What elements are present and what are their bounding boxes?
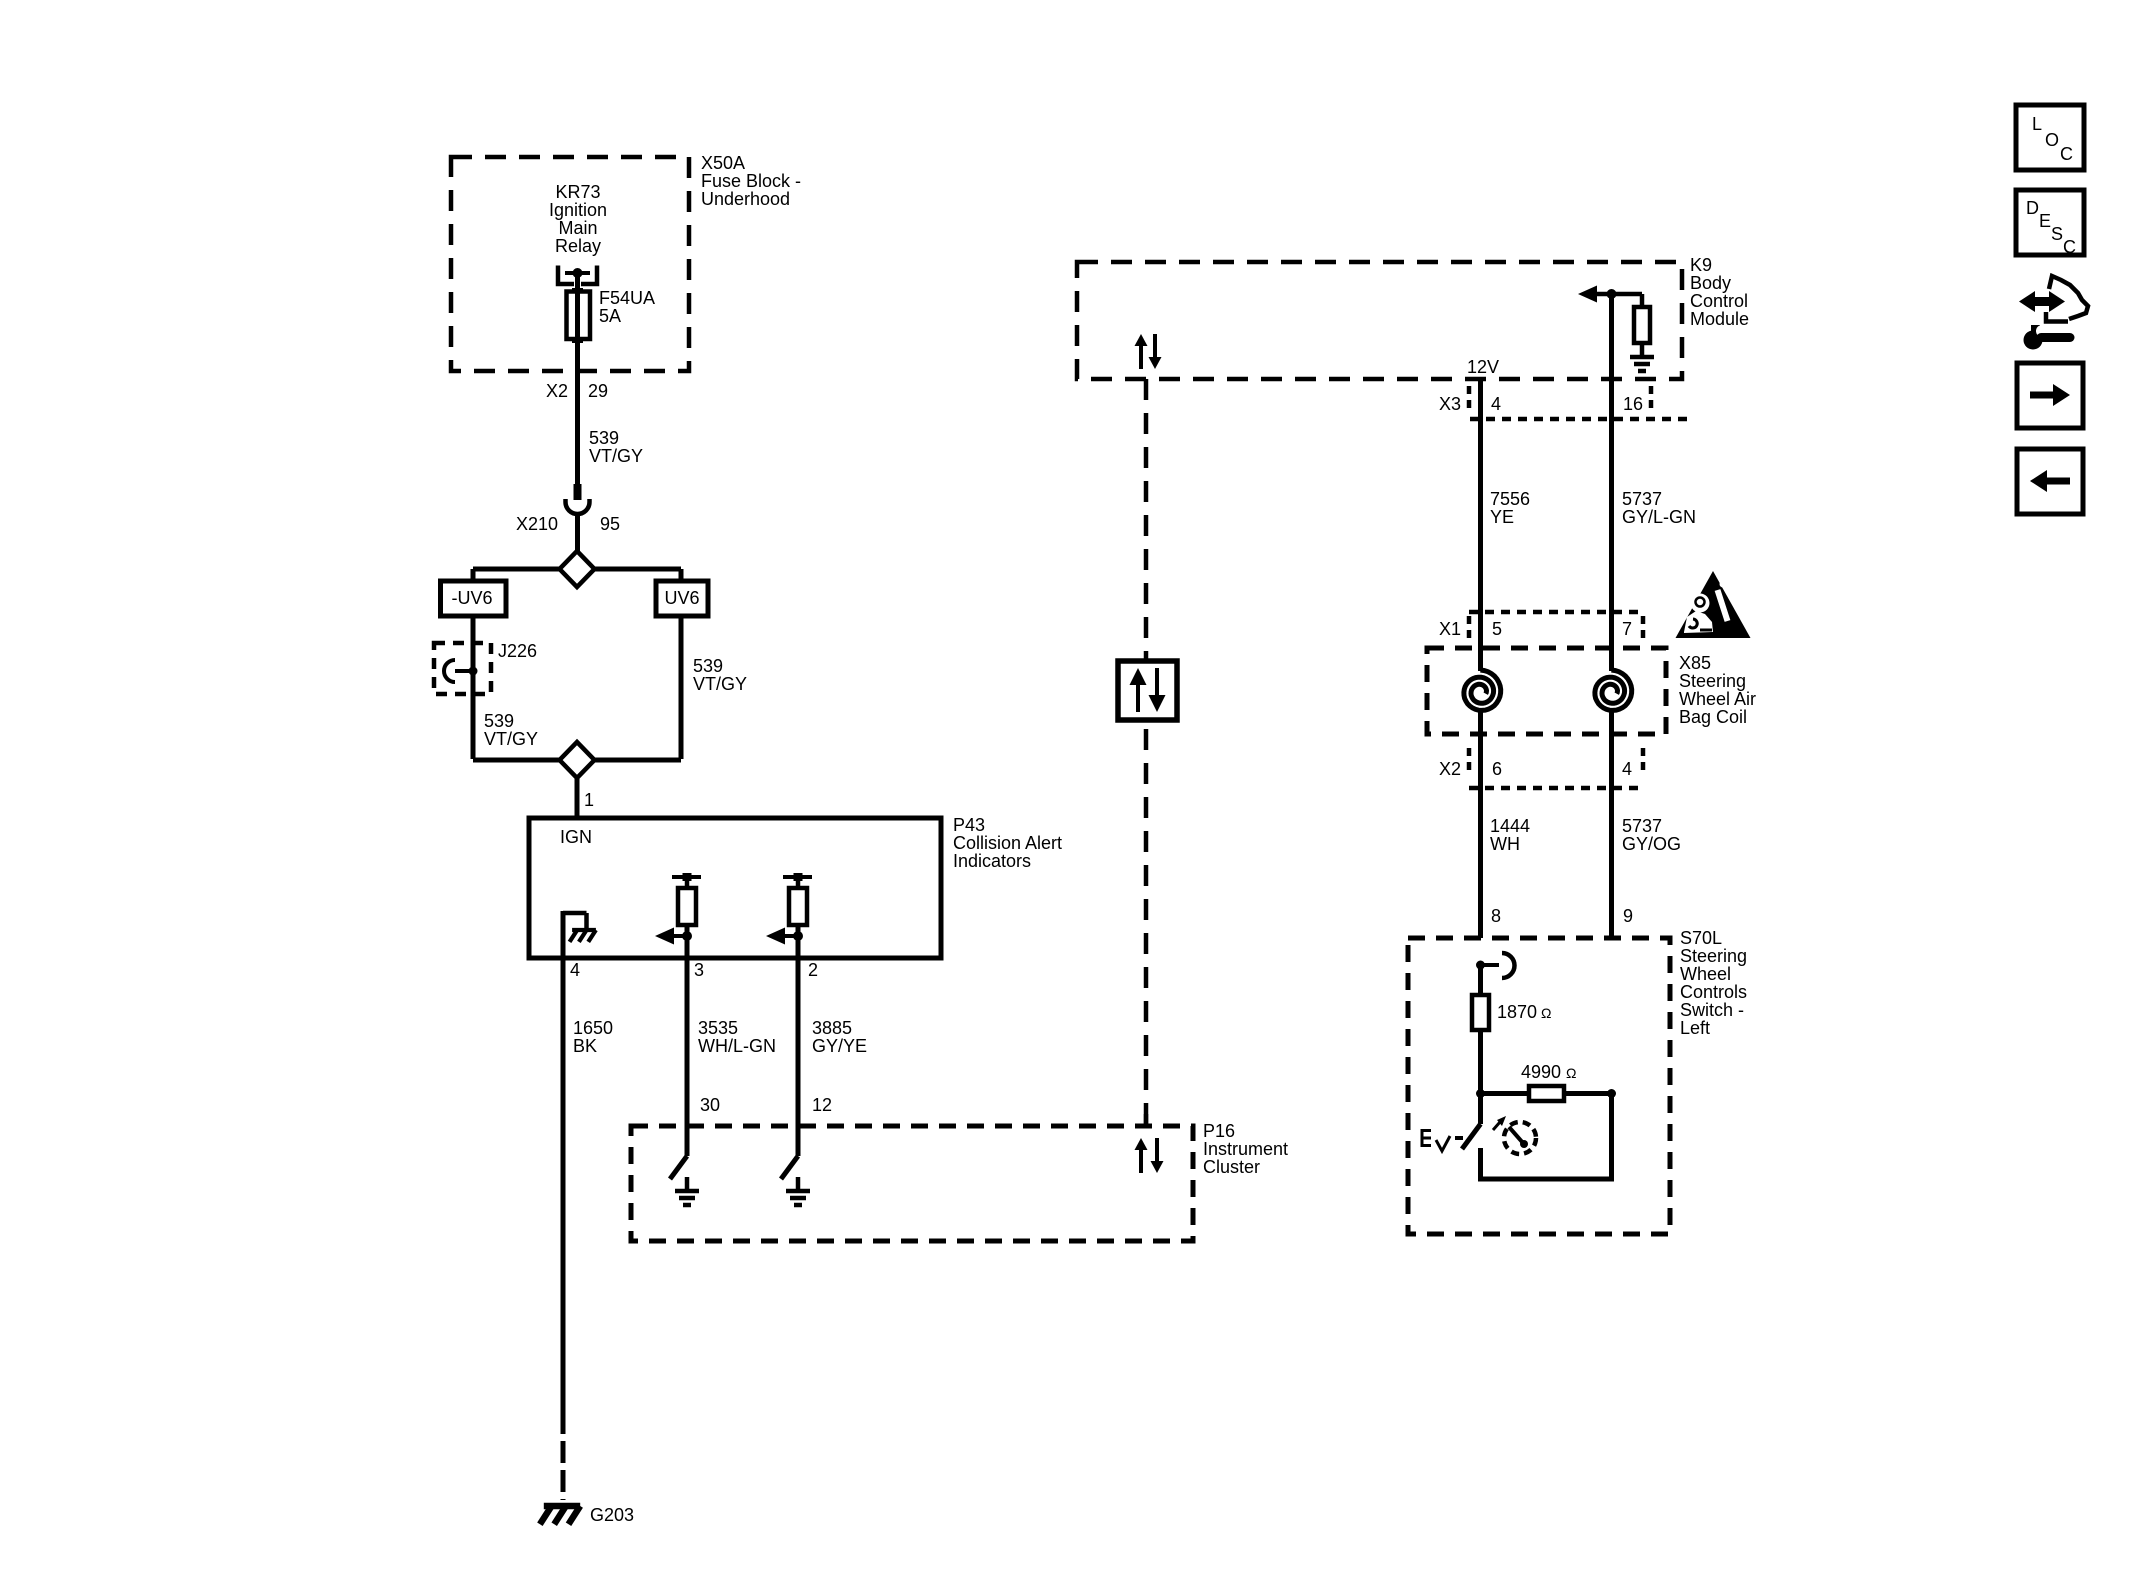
svg-text:Relay: Relay [555,236,601,256]
svg-text:Steering: Steering [1680,946,1747,966]
svg-text:5A: 5A [599,306,621,326]
svg-text:VT/GY: VT/GY [484,729,538,749]
svg-text:S70L: S70L [1680,928,1722,948]
svg-text:6: 6 [1492,759,1502,779]
svg-text:1444: 1444 [1490,816,1530,836]
svg-text:Module: Module [1690,309,1749,329]
svg-text:L: L [2032,114,2042,134]
svg-text:Fuse Block -: Fuse Block - [701,171,801,191]
svg-text:UV6: UV6 [664,588,699,608]
svg-text:9: 9 [1623,906,1633,926]
svg-text:Left: Left [1680,1018,1710,1038]
svg-text:X2: X2 [546,381,568,401]
svg-text:Underhood: Underhood [701,189,790,209]
svg-text:G203: G203 [590,1505,634,1525]
svg-text:Body: Body [1690,273,1731,293]
svg-text:4: 4 [570,960,580,980]
svg-text:J226: J226 [498,641,537,661]
svg-text:7556: 7556 [1490,489,1530,509]
svg-text:GY/L-GN: GY/L-GN [1622,507,1696,527]
svg-text:Wheel Air: Wheel Air [1679,689,1756,709]
svg-text:GY/YE: GY/YE [812,1036,867,1056]
svg-text:539: 539 [693,656,723,676]
svg-text:Controls: Controls [1680,982,1747,1002]
svg-text:16: 16 [1623,394,1643,414]
svg-text:Collision Alert: Collision Alert [953,833,1062,853]
svg-text:BK: BK [573,1036,597,1056]
svg-text:Control: Control [1690,291,1748,311]
svg-text:KR73: KR73 [555,182,600,202]
svg-text:7: 7 [1622,619,1632,639]
svg-text:YE: YE [1490,507,1514,527]
svg-text:5737: 5737 [1622,816,1662,836]
svg-text:4: 4 [1491,394,1501,414]
svg-text:D: D [2026,198,2039,218]
svg-text:C: C [2060,144,2073,164]
svg-text:IGN: IGN [560,827,592,847]
svg-text:X210: X210 [516,514,558,534]
svg-text:539: 539 [484,711,514,731]
svg-text:Wheel: Wheel [1680,964,1731,984]
svg-text:WH/L-GN: WH/L-GN [698,1036,776,1056]
svg-text:Cluster: Cluster [1203,1157,1260,1177]
svg-text:30: 30 [700,1095,720,1115]
svg-text:Steering: Steering [1679,671,1746,691]
svg-text:O: O [2045,130,2059,150]
svg-text:K9: K9 [1690,255,1712,275]
svg-text:Indicators: Indicators [953,851,1031,871]
svg-text:S: S [2051,224,2063,244]
svg-text:2: 2 [808,960,818,980]
svg-text:4990: 4990 [1521,1062,1561,1082]
svg-text:3885: 3885 [812,1018,852,1038]
svg-text:1: 1 [584,790,594,810]
svg-text:P16: P16 [1203,1121,1235,1141]
svg-text:X2: X2 [1439,759,1461,779]
svg-text:F54UA: F54UA [599,288,655,308]
svg-text:5737: 5737 [1622,489,1662,509]
svg-text:Bag Coil: Bag Coil [1679,707,1747,727]
svg-text:Main: Main [558,218,597,238]
svg-text:Ignition: Ignition [549,200,607,220]
svg-text:3535: 3535 [698,1018,738,1038]
svg-text:12: 12 [812,1095,832,1115]
svg-text:Instrument: Instrument [1203,1139,1288,1159]
svg-text:VT/GY: VT/GY [589,446,643,466]
svg-text:Switch -: Switch - [1680,1000,1744,1020]
svg-text:Ω: Ω [1566,1065,1576,1081]
svg-text:X85: X85 [1679,653,1711,673]
svg-text:X1: X1 [1439,619,1461,639]
svg-text:X3: X3 [1439,394,1461,414]
svg-text:29: 29 [588,381,608,401]
svg-text:X50A: X50A [701,153,745,173]
svg-text:1870: 1870 [1497,1002,1537,1022]
svg-text:1650: 1650 [573,1018,613,1038]
svg-text:WH: WH [1490,834,1520,854]
svg-text:8: 8 [1491,906,1501,926]
svg-text:12V: 12V [1467,357,1499,377]
svg-text:3: 3 [694,960,704,980]
svg-text:95: 95 [600,514,620,534]
svg-text:-UV6: -UV6 [451,588,492,608]
svg-text:539: 539 [589,428,619,448]
svg-text:5: 5 [1492,619,1502,639]
svg-text:VT/GY: VT/GY [693,674,747,694]
svg-text:E: E [2039,211,2051,231]
svg-text:4: 4 [1622,759,1632,779]
svg-text:GY/OG: GY/OG [1622,834,1681,854]
svg-text:C: C [2063,237,2076,257]
svg-text:P43: P43 [953,815,985,835]
svg-text:Ω: Ω [1541,1005,1551,1021]
